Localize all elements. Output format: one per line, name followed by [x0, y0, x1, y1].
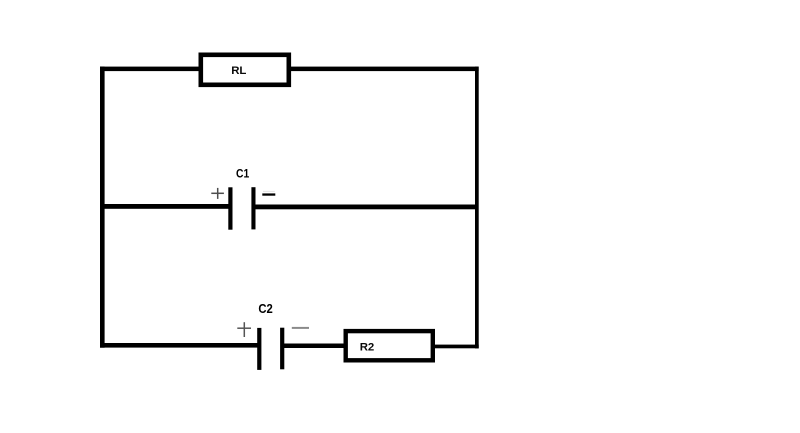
plus sign of C1: [211, 188, 224, 199]
wire: top rail left segment (left rail to RL): [100, 67, 202, 72]
plus sign of C2: [237, 322, 251, 337]
svg-text:C2: C2: [258, 301, 272, 316]
wire: R2 to right rail: [435, 345, 479, 349]
wire: middle right segment (C1 - plate to right rail): [254, 205, 479, 210]
wire: right vertical rail: [475, 67, 479, 349]
svg-text:C1: C1: [236, 166, 249, 180]
resistor R2: [346, 331, 433, 360]
minus sign of C1: [262, 191, 275, 196]
svg-text:R2: R2: [360, 342, 375, 354]
resistor RL: [201, 55, 289, 85]
minus sign of C2: [292, 327, 309, 329]
wire: middle left segment (left rail to C1 + plate): [100, 204, 231, 209]
capacitor C1: [228, 187, 255, 230]
wire: left vertical rail: [100, 67, 105, 348]
svg-text:RL: RL: [231, 65, 246, 77]
capacitor C2: [257, 328, 284, 370]
wire: top rail right segment (RL to right rail): [289, 67, 479, 72]
wire: bottom left segment (left rail to C2 + plate): [100, 343, 260, 348]
wire: C2 - plate to R2: [282, 344, 346, 349]
